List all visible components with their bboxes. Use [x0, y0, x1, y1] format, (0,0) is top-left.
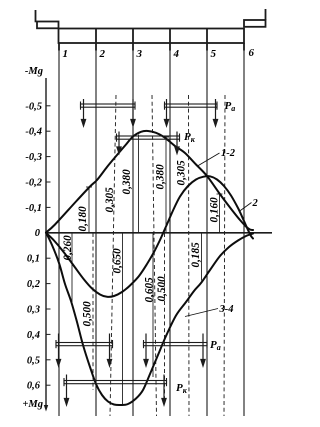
svg-text:2: 2: [99, 48, 106, 60]
svg-text:0,305: 0,305: [104, 187, 116, 213]
svg-text:0,650: 0,650: [112, 248, 124, 274]
svg-text:0,380: 0,380: [155, 164, 167, 190]
svg-text:0,605: 0,605: [144, 277, 156, 303]
svg-text:Pк: Pк: [184, 131, 196, 144]
svg-text:-0,2: -0,2: [25, 178, 42, 189]
svg-text:3: 3: [136, 48, 143, 60]
svg-text:0,305: 0,305: [176, 160, 188, 186]
svg-text:0,180: 0,180: [77, 206, 89, 232]
svg-text:+Mg: +Mg: [22, 399, 43, 410]
svg-text:1: 1: [63, 48, 69, 60]
svg-text:0,5: 0,5: [27, 355, 40, 366]
svg-text:-0,5: -0,5: [25, 101, 42, 112]
svg-text:0,3: 0,3: [27, 305, 40, 316]
svg-text:-0,1: -0,1: [25, 203, 42, 214]
svg-text:6: 6: [249, 47, 255, 59]
svg-text:0,160: 0,160: [209, 197, 221, 223]
svg-text:0,500: 0,500: [156, 276, 168, 302]
svg-text:-Mg: -Mg: [25, 66, 43, 77]
svg-text:0,500: 0,500: [82, 301, 94, 327]
svg-text:0,380: 0,380: [121, 169, 133, 195]
svg-text:-0,3: -0,3: [25, 152, 42, 163]
svg-text:Pa: Pa: [225, 100, 236, 113]
svg-text:0,260: 0,260: [62, 235, 74, 261]
svg-text:0,6: 0,6: [27, 381, 41, 392]
svg-text:0,1: 0,1: [27, 254, 40, 265]
svg-text:4: 4: [173, 48, 180, 60]
svg-text:0,2: 0,2: [27, 279, 41, 290]
svg-text:2: 2: [252, 198, 259, 209]
svg-text:0,4: 0,4: [27, 330, 40, 341]
svg-text:0,185: 0,185: [190, 242, 202, 268]
svg-text:0: 0: [35, 228, 41, 239]
svg-text:-0,4: -0,4: [25, 127, 42, 138]
svg-text:5: 5: [211, 48, 217, 60]
svg-text:Pa: Pa: [210, 339, 221, 352]
svg-text:3-4: 3-4: [219, 304, 234, 315]
svg-text:Pк: Pк: [176, 382, 188, 395]
svg-text:1-2: 1-2: [221, 148, 236, 159]
